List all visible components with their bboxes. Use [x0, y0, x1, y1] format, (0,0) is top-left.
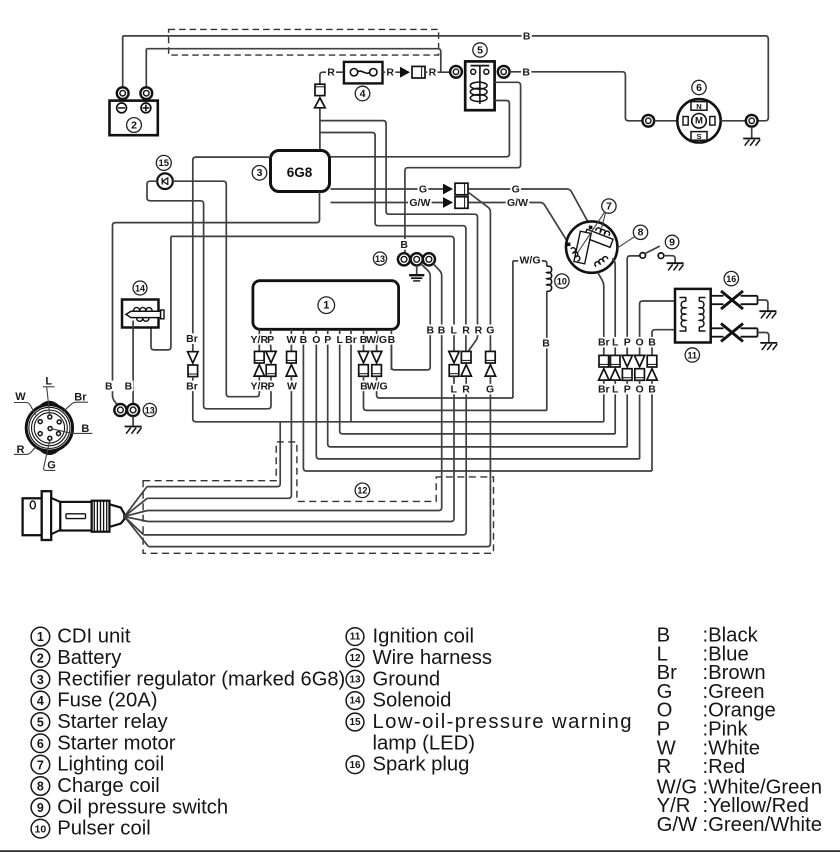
leader line 8 [617, 237, 635, 249]
svg-text:Rectifier regulator (marked 6G: Rectifier regulator (marked 6G8) [57, 668, 345, 690]
svg-text:12: 12 [349, 653, 361, 664]
svg-text:13: 13 [375, 254, 385, 264]
connector Y/R [258, 344, 260, 351]
svg-text:B: B [522, 66, 530, 78]
wire Br up to CDI pin [350, 344, 352, 422]
ground spark plug lower [760, 342, 777, 344]
label Br below [185, 381, 199, 392]
svg-text:L: L [612, 384, 619, 396]
wire B ring2 down to CDI B pin [391, 264, 430, 370]
starter relay 5 [450, 61, 510, 110]
svg-text:L: L [336, 334, 343, 346]
svg-text:16: 16 [349, 760, 361, 771]
wire CDI B right pin [390, 344, 392, 370]
wire B ring3 down to plug [148, 264, 442, 511]
svg-text:Ground: Ground [373, 668, 441, 690]
wire P to oil pressure switch [627, 256, 640, 356]
svg-text:13: 13 [349, 674, 361, 685]
solenoid 14 [122, 300, 164, 405]
svg-text:O: O [636, 384, 644, 396]
inline connector G [443, 184, 453, 195]
svg-text:4: 4 [360, 88, 366, 100]
low-oil warning LED 15 [157, 173, 173, 189]
svg-text:Oil pressure switch: Oil pressure switch [57, 796, 228, 818]
svg-text:Charge coil: Charge coil [57, 775, 160, 797]
wire L to plug [148, 376, 454, 521]
wire B to pulser [364, 376, 547, 410]
svg-text:14: 14 [349, 696, 361, 707]
wire value labels overlay [104, 31, 657, 396]
wire P right down [626, 394, 628, 447]
wire W/G trunk [377, 376, 513, 398]
svg-text:4: 4 [37, 694, 44, 708]
connectors right group [603, 349, 605, 355]
svg-text:G: G [47, 460, 56, 472]
fuse F1 20A [344, 62, 383, 84]
svg-text:Pulser coil: Pulser coil [57, 818, 151, 840]
svg-text:Y/R: Y/R [251, 380, 269, 392]
connector B mid [363, 344, 365, 351]
svg-text:B: B [125, 380, 133, 392]
svg-text:P: P [267, 380, 274, 392]
wire 6G8 bottom B to ground [113, 192, 320, 405]
ground 13 left rings [114, 404, 141, 434]
svg-text:Wire harness: Wire harness [373, 647, 492, 669]
oil pressure switch 9 [640, 246, 684, 270]
svg-text:R: R [462, 324, 470, 336]
wire harness dashed box top [169, 29, 439, 55]
svg-text:R: R [429, 67, 437, 79]
label Br above [185, 333, 199, 344]
label 6 starter motor [692, 80, 706, 94]
svg-text:1: 1 [323, 300, 329, 312]
svg-text:6: 6 [37, 737, 44, 751]
wire G/W rectifier to lighting coil [331, 202, 444, 204]
svg-text:Starter motor: Starter motor [57, 732, 176, 754]
svg-text:Br: Br [186, 333, 198, 345]
wire R connector to relay terminal [425, 71, 450, 73]
svg-text:P: P [324, 334, 331, 346]
svg-text:R: R [462, 384, 470, 396]
starter motor 6 [642, 99, 757, 142]
rectifier regulator U1 6G8 [271, 151, 330, 192]
spark plug 16 lower [711, 324, 758, 342]
svg-text:Spark plug: Spark plug [373, 754, 470, 776]
label 16 spark plug [724, 271, 738, 285]
svg-text:6: 6 [696, 82, 702, 94]
wire P column trunk [328, 344, 628, 447]
wire W to plug [147, 376, 291, 498]
svg-text:R: R [657, 756, 672, 778]
label G/W right [506, 197, 529, 208]
svg-text:B: B [523, 31, 531, 43]
svg-text:Br: Br [186, 380, 198, 392]
label R middle [385, 67, 395, 78]
connector R mid [461, 351, 471, 363]
svg-text:5: 5 [37, 716, 44, 730]
svg-text:G: G [512, 184, 520, 196]
ground spark plug upper [759, 310, 776, 312]
wire spark plug lower to ground [758, 333, 769, 343]
wire R fuse to connector [383, 71, 401, 73]
svg-text:13: 13 [145, 405, 155, 415]
svg-text:2: 2 [131, 119, 137, 131]
svg-text:B: B [427, 324, 435, 336]
svg-text:7: 7 [37, 758, 44, 772]
label 10 pulser coil [555, 274, 569, 288]
ground at starter motor [743, 127, 760, 146]
wire O up to ignition coil [640, 301, 675, 349]
svg-text:R: R [475, 324, 483, 336]
wire L solenoid loop [151, 236, 171, 350]
svg-text:16: 16 [726, 274, 736, 284]
svg-text:B: B [400, 239, 408, 251]
wire LED left to CDI P connector [147, 181, 271, 409]
svg-text:CDI unit: CDI unit [57, 626, 131, 648]
svg-text:10: 10 [35, 823, 47, 835]
wire L right down [614, 394, 616, 434]
ground 13 middle rings [398, 253, 435, 281]
svg-text:O: O [312, 334, 320, 346]
legend component list left [31, 626, 345, 840]
svg-text:lamp (LED): lamp (LED) [373, 732, 476, 754]
svg-text::Green/White: :Green/White [703, 814, 822, 836]
label 12 wire harness [355, 483, 370, 498]
svg-text:P: P [624, 384, 631, 396]
label B pulser [541, 338, 551, 349]
wire relay coil bottom to rectifier [331, 101, 510, 157]
svg-text:W: W [287, 380, 297, 392]
label 15 LED [156, 155, 171, 170]
label 11 ignition coil [685, 348, 699, 362]
svg-text:15: 15 [349, 717, 361, 728]
svg-text:3: 3 [37, 673, 44, 687]
label R left [326, 67, 336, 78]
svg-text:P: P [267, 334, 274, 346]
connector L mid [449, 351, 459, 362]
svg-text:O: O [636, 337, 644, 349]
label W below [286, 381, 298, 392]
svg-text:B: B [542, 338, 550, 350]
svg-text:G/W: G/W [657, 814, 698, 836]
label 3 rectifier [252, 166, 267, 181]
svg-text:S: S [696, 132, 701, 141]
label 8 charge coil [633, 225, 647, 239]
svg-text:8: 8 [37, 780, 44, 794]
wire B battery negative to starter motor ground [123, 36, 769, 121]
svg-text:B: B [648, 337, 656, 349]
label Y/R below [249, 381, 269, 392]
wire O column trunk [316, 344, 639, 459]
wire L column trunk [340, 344, 616, 434]
svg-text:W: W [286, 334, 296, 346]
label 9 oil pressure switch [665, 235, 679, 249]
label G mid below [485, 384, 496, 395]
svg-text:Starter relay: Starter relay [57, 711, 168, 733]
connector below fuse [315, 84, 325, 95]
svg-text:W: W [15, 391, 26, 403]
CDI unit 1 [253, 281, 399, 330]
label G/W left [408, 197, 431, 208]
svg-text:G: G [419, 184, 427, 196]
svg-text:Br: Br [598, 337, 610, 349]
svg-text:9: 9 [669, 236, 675, 248]
label 5 starter relay [473, 43, 487, 57]
wire spark plug upper to ground [758, 300, 768, 311]
labels B B L R R G [425, 325, 435, 336]
label 13 middle [373, 252, 386, 265]
svg-text:3: 3 [257, 167, 263, 179]
label L mid below [449, 384, 458, 395]
wire G to plug [149, 376, 491, 546]
svg-text:9: 9 [37, 801, 44, 815]
svg-text:P: P [624, 337, 631, 349]
wire Br right down [603, 394, 605, 422]
svg-text:14: 14 [135, 283, 145, 293]
svg-text:L: L [450, 384, 457, 396]
ignition coil 11 [675, 289, 711, 343]
svg-text:Fuse (20A): Fuse (20A) [57, 690, 157, 712]
svg-text:Lighting coil: Lighting coil [57, 754, 164, 776]
label B top [522, 31, 532, 42]
connector Br left [188, 352, 198, 363]
svg-text:2: 2 [37, 652, 44, 666]
wire B battery positive to starter relay [146, 49, 441, 72]
label 14 solenoid [133, 281, 147, 295]
plug fan-out wires [124, 487, 147, 517]
svg-text:B: B [105, 380, 113, 392]
spark plug 16 upper [711, 291, 758, 309]
label 7 lighting coil [602, 199, 616, 213]
wire B relay to starter motor [510, 72, 643, 121]
svg-text:8: 8 [638, 227, 644, 239]
svg-text:11: 11 [688, 350, 698, 360]
page edge artifact [0, 850, 840, 852]
wire W/G down to CDI [512, 261, 514, 398]
svg-text:Ignition coil: Ignition coil [373, 626, 474, 648]
svg-text:R: R [386, 67, 394, 79]
svg-text:10: 10 [557, 277, 567, 287]
label R mid below [461, 384, 471, 395]
svg-text:L: L [450, 324, 457, 336]
label 13 left [143, 403, 156, 416]
harness plug connector [23, 491, 125, 540]
svg-text:G/W: G/W [507, 197, 528, 209]
wire G tap down to G connector [469, 193, 491, 352]
lighting and charge coil assembly [566, 221, 617, 272]
wire relay coil top to ground B [405, 82, 521, 253]
svg-text:B: B [300, 334, 308, 346]
label B above ground trio [399, 239, 409, 250]
inline connector G/W [443, 197, 453, 208]
svg-text:Battery: Battery [57, 647, 122, 669]
svg-text:Low-oil-pressure warning: Low-oil-pressure warning [373, 711, 632, 733]
label B below mid [359, 381, 369, 392]
wire G rectifier to lighting coil [331, 188, 444, 190]
label W/G pulser [518, 255, 541, 266]
svg-text:G: G [486, 324, 494, 336]
svg-text:W/G: W/G [366, 334, 387, 346]
svg-text:5: 5 [477, 44, 483, 56]
svg-text:L: L [45, 376, 52, 388]
svg-text:15: 15 [159, 158, 170, 169]
label 4 fuse [355, 86, 370, 101]
label W/G below [366, 381, 389, 392]
label G left [418, 184, 429, 195]
label B left pair [104, 381, 114, 392]
CDI pin labels [249, 334, 269, 345]
svg-text:W/G: W/G [520, 254, 541, 266]
svg-text:B: B [648, 384, 656, 396]
svg-text:Solenoid: Solenoid [373, 690, 452, 712]
svg-text:B: B [438, 324, 446, 336]
round connector [26, 402, 72, 453]
CDI pin wires [258, 330, 260, 335]
svg-text:7: 7 [606, 201, 612, 213]
connector W [290, 344, 292, 351]
wire 6G8 left to Br column [193, 157, 271, 352]
svg-text:G/W: G/W [409, 197, 430, 209]
wire LED right to CDI Y/R connector [173, 181, 259, 397]
legend color codes [657, 625, 822, 836]
connector W/G [376, 344, 378, 351]
battery 2 [110, 36, 158, 135]
leader lines 7 [602, 213, 606, 229]
svg-text:1: 1 [37, 630, 44, 644]
wire Br down to plug [147, 422, 280, 487]
labels right group below [597, 384, 611, 395]
wire B right down [651, 394, 653, 471]
wire Br up to charge coil [598, 273, 604, 350]
svg-text:Y/R: Y/R [251, 334, 269, 346]
svg-text:6G8: 6G8 [287, 165, 313, 180]
svg-text:M: M [695, 116, 703, 127]
label P below [266, 381, 275, 392]
svg-text:N: N [696, 102, 701, 111]
label G right [510, 184, 521, 195]
svg-text:11: 11 [350, 632, 361, 643]
svg-text::Red: :Red [703, 756, 746, 778]
wire harness 12 dashed outline [143, 442, 493, 553]
svg-text:R: R [327, 67, 335, 79]
svg-text:L: L [612, 337, 619, 349]
label 1 CDI [318, 297, 335, 314]
wire R fuse left to rectifier with taps [320, 72, 344, 84]
wire Br trunk [193, 377, 604, 422]
label R right [427, 67, 437, 78]
wire O right down [639, 394, 641, 459]
svg-text:B: B [388, 334, 396, 346]
svg-text:W/G: W/G [367, 380, 388, 392]
connector G mid [486, 351, 496, 363]
legend component list middle [346, 626, 631, 776]
pulser coil 10 [513, 261, 552, 411]
svg-text:Br: Br [345, 334, 357, 346]
label B relay-motor [521, 67, 531, 78]
inline connector fuse-relay [400, 67, 410, 78]
svg-text:Br: Br [598, 384, 610, 396]
svg-text:12: 12 [357, 486, 367, 496]
wire L up to charge coil [612, 258, 615, 349]
svg-text:G: G [486, 384, 494, 396]
connector P [270, 344, 272, 351]
wire B column trunk [303, 344, 652, 471]
wire R to plug [144, 376, 467, 535]
labels right group above [597, 337, 611, 348]
wire L trunk to L connector [171, 236, 454, 351]
wire B up to ignition coil [652, 330, 675, 349]
